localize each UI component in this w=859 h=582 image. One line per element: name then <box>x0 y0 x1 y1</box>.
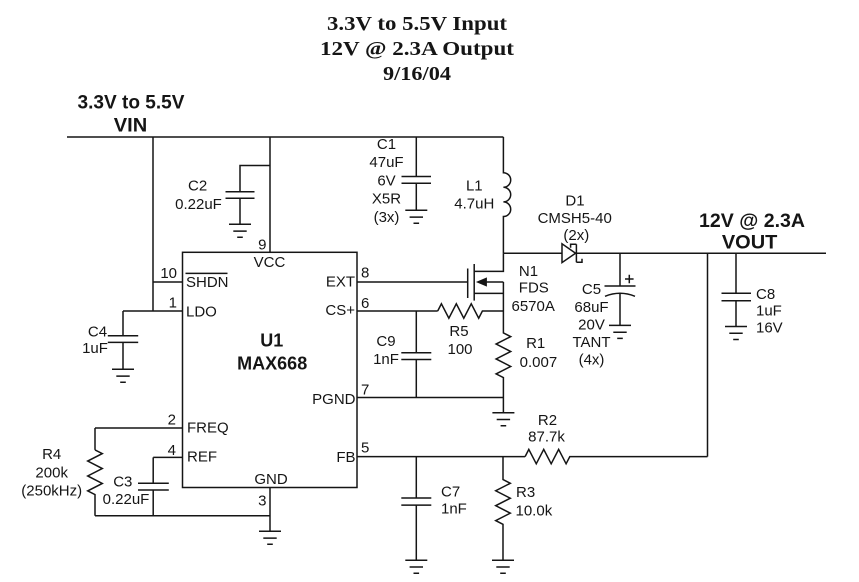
ground (C7) <box>405 560 427 573</box>
svg-text:0.22uF: 0.22uF <box>175 196 222 213</box>
svg-text:1uF: 1uF <box>756 303 782 320</box>
svg-text:9: 9 <box>258 237 266 254</box>
diode D1 <box>538 193 612 263</box>
svg-text:PGND: PGND <box>312 391 356 408</box>
svg-text:100: 100 <box>447 341 472 358</box>
ground (C4) <box>112 369 134 382</box>
wire FB pin 5 <box>357 456 525 458</box>
svg-text:FDS: FDS <box>519 280 549 297</box>
wire SW node to diode anode <box>503 252 562 254</box>
resistor R5 <box>438 304 504 358</box>
svg-text:C3: C3 <box>113 474 132 491</box>
svg-text:87.7k: 87.7k <box>528 429 565 446</box>
capacitor C1 <box>369 136 431 226</box>
wire EXT pin 8 <box>357 281 468 283</box>
inductor L1 <box>454 137 510 253</box>
svg-text:6570A: 6570A <box>512 298 555 315</box>
svg-text:C5: C5 <box>582 281 601 298</box>
wire FREQ pin 2 <box>95 428 183 450</box>
ground (C1) <box>405 210 427 223</box>
svg-text:10: 10 <box>160 265 177 282</box>
svg-text:(3x): (3x) <box>374 209 400 226</box>
svg-text:FB: FB <box>336 449 355 466</box>
capacitor C3 <box>103 474 169 516</box>
wire PGND pin 7 <box>357 397 503 399</box>
ground (C8) <box>725 327 747 340</box>
svg-text:EXT: EXT <box>326 274 355 291</box>
wire GND pin 3 <box>269 488 271 532</box>
svg-text:3.3V to 5.5V Input: 3.3V to 5.5V Input <box>327 13 507 35</box>
svg-text:12V @ 2.3A Output: 12V @ 2.3A Output <box>320 38 514 60</box>
op-amp U1 box <box>183 252 358 487</box>
svg-text:C2: C2 <box>188 177 207 194</box>
svg-text:5: 5 <box>361 440 369 457</box>
svg-text:TANT: TANT <box>572 334 610 351</box>
wire bottom-left net <box>95 515 270 517</box>
svg-text:C8: C8 <box>756 286 775 303</box>
svg-text:C7: C7 <box>441 484 460 501</box>
svg-text:N1: N1 <box>519 263 538 280</box>
svg-text:20V: 20V <box>578 317 605 334</box>
wire SHDN pin 10 <box>153 281 183 283</box>
wire VOUT feedback drop <box>707 253 709 456</box>
ground (C5) <box>609 325 631 338</box>
svg-text:1: 1 <box>169 295 177 312</box>
svg-text:VIN: VIN <box>114 116 148 137</box>
svg-text:(4x): (4x) <box>579 352 605 369</box>
capacitor C5 <box>572 253 635 368</box>
svg-text:3.3V to 5.5V: 3.3V to 5.5V <box>78 93 185 114</box>
wire C2 branch <box>240 166 270 192</box>
capacitor C7 <box>401 457 467 561</box>
wire REF pin 4 <box>153 457 182 483</box>
wire CS+ pin 6 <box>357 310 438 312</box>
node VIN label <box>78 93 185 137</box>
svg-text:6V: 6V <box>377 172 395 189</box>
wire LDO pin 1 <box>123 310 183 312</box>
resistor R3 <box>496 457 553 561</box>
svg-text:12V @ 2.3A: 12V @ 2.3A <box>699 211 805 232</box>
ground (C2) <box>229 224 251 237</box>
svg-text:U1: U1 <box>260 331 283 351</box>
svg-text:R4: R4 <box>42 446 61 463</box>
wire VIN drop to SHDN/LDO <box>152 137 154 311</box>
svg-text:4: 4 <box>168 442 176 459</box>
ground (R1) <box>492 413 514 426</box>
wire VIN rail <box>67 136 503 138</box>
wire VOUT rail <box>576 252 826 254</box>
svg-text:47uF: 47uF <box>369 154 403 171</box>
svg-text:1nF: 1nF <box>441 500 467 517</box>
svg-text:FREQ: FREQ <box>187 420 229 437</box>
capacitor C4 <box>82 311 138 369</box>
svg-text:(250kHz): (250kHz) <box>21 483 82 500</box>
svg-text:0.007: 0.007 <box>520 354 558 371</box>
capacitor C8 <box>722 253 783 336</box>
svg-text:9/16/04: 9/16/04 <box>383 63 451 85</box>
svg-text:REF: REF <box>187 449 217 466</box>
capacitor C9 <box>373 311 431 398</box>
svg-text:1uF: 1uF <box>82 340 108 357</box>
svg-text:R2: R2 <box>538 412 557 429</box>
ground (U1 GND) <box>259 531 281 544</box>
svg-text:16V: 16V <box>756 320 783 337</box>
node VOUT label <box>699 211 805 253</box>
wire VCC drop pin 9 <box>269 137 271 252</box>
U1 label <box>237 331 307 374</box>
svg-text:VOUT: VOUT <box>722 232 778 253</box>
svg-text:8: 8 <box>361 265 369 282</box>
svg-text:R1: R1 <box>526 335 545 352</box>
svg-text:C9: C9 <box>376 333 395 350</box>
svg-text:MAX668: MAX668 <box>237 354 307 374</box>
svg-text:1nF: 1nF <box>373 351 399 368</box>
svg-text:200k: 200k <box>35 464 68 481</box>
svg-text:2: 2 <box>168 411 176 428</box>
svg-text:R3: R3 <box>516 484 535 501</box>
svg-text:D1: D1 <box>565 193 584 210</box>
svg-text:CS+: CS+ <box>325 302 355 319</box>
svg-text:C4: C4 <box>88 324 107 341</box>
svg-text:4.7uH: 4.7uH <box>454 196 494 213</box>
svg-text:SHDN: SHDN <box>186 274 229 291</box>
svg-text:R5: R5 <box>449 323 468 340</box>
svg-text:(2x): (2x) <box>563 227 589 244</box>
svg-text:CMSH5-40: CMSH5-40 <box>538 210 612 227</box>
svg-text:3: 3 <box>258 492 266 509</box>
resistor R4 <box>21 446 102 516</box>
svg-text:0.22uF: 0.22uF <box>103 491 150 508</box>
svg-text:6: 6 <box>361 295 369 312</box>
ground (R3) <box>492 560 514 573</box>
svg-text:X5R: X5R <box>372 191 401 208</box>
svg-text:C1: C1 <box>377 136 396 153</box>
svg-text:GND: GND <box>254 471 288 488</box>
svg-text:VCC: VCC <box>254 254 286 271</box>
svg-text:10.0k: 10.0k <box>516 503 553 520</box>
svg-text:LDO: LDO <box>186 303 217 320</box>
transistor N1 <box>468 253 555 315</box>
svg-text:7: 7 <box>361 382 369 399</box>
capacitor C2 <box>175 177 254 224</box>
svg-text:L1: L1 <box>466 178 483 195</box>
title <box>320 13 514 85</box>
resistor R2 <box>525 412 707 464</box>
svg-text:68uF: 68uF <box>574 299 608 316</box>
resistor R1 <box>496 311 557 413</box>
pin SHDN label <box>186 273 229 291</box>
